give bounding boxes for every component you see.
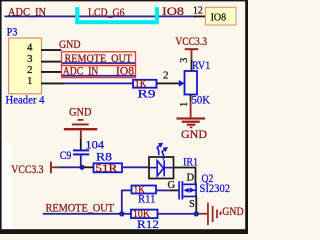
pin wire C9 top xyxy=(80,138,82,149)
svg-text:S: S xyxy=(189,199,195,210)
wire in box1 xyxy=(62,62,135,64)
svg-text:50K: 50K xyxy=(192,92,211,106)
svg-text:3: 3 xyxy=(179,58,190,63)
wire R8 to IR1 xyxy=(122,166,149,168)
svg-text:GND: GND xyxy=(69,104,92,118)
potentiometer RV1 body xyxy=(185,71,198,95)
IR LED IR1 body xyxy=(149,157,174,179)
ground symbol (below RV1) xyxy=(177,117,206,128)
wiper arrow RV1 xyxy=(179,80,185,87)
wire REMOTE_OUT rail xyxy=(43,213,132,215)
pin 1 wire (black stub) xyxy=(41,83,65,85)
wire VCC to junction xyxy=(59,166,82,168)
svg-text:12: 12 xyxy=(193,5,203,17)
wire R11 row xyxy=(121,190,132,192)
svg-text:VCC3.3: VCC3.3 xyxy=(11,164,43,176)
resistor R9 body xyxy=(133,80,157,88)
power port VCC3.3 (top right) xyxy=(175,36,207,60)
transistor Q2 symbol xyxy=(178,181,197,199)
svg-text:2: 2 xyxy=(27,64,33,76)
svg-text:REMOTE_OUT: REMOTE_OUT xyxy=(65,51,133,65)
svg-text:Header 4: Header 4 xyxy=(6,93,45,107)
wire RV1 to GND xyxy=(190,102,192,118)
svg-text:C9: C9 xyxy=(60,148,72,162)
svg-text:3: 3 xyxy=(27,53,33,65)
svg-text:1: 1 xyxy=(179,102,190,107)
svg-text:51R: 51R xyxy=(95,164,117,175)
svg-text:IO8: IO8 xyxy=(162,4,184,18)
wire top rail xyxy=(4,16,196,18)
pin 3 wire (RV1 top) xyxy=(191,60,193,72)
resistor R11 body xyxy=(132,186,157,194)
pin wire to R8 xyxy=(84,166,94,168)
gate pin wire xyxy=(170,190,178,192)
wire in box2 xyxy=(62,75,135,77)
pin 4 wire xyxy=(41,49,61,51)
svg-text:GND: GND xyxy=(59,37,81,51)
ground symbol (bottom right, rotated) xyxy=(207,203,221,226)
svg-text:P3: P3 xyxy=(7,25,17,39)
connector P3 body xyxy=(9,38,42,94)
svg-text:LCD_G6: LCD_G6 xyxy=(88,5,125,19)
diode symbol IR1 xyxy=(150,160,173,176)
drain pin wire (from IR1) covered above xyxy=(195,196,197,213)
svg-text:R12: R12 xyxy=(137,217,159,231)
svg-text:IR1: IR1 xyxy=(183,155,198,169)
junction node (C9/R8) xyxy=(79,165,84,170)
highlight box REMOTE_OUT xyxy=(62,52,136,66)
junction node (source) xyxy=(194,211,199,216)
wire GND to C9 xyxy=(80,130,82,138)
pin 1 wire (RV1 bottom) xyxy=(190,95,192,102)
svg-text:R8: R8 xyxy=(96,149,112,163)
highlight box ADC_IN/IO8 xyxy=(62,66,136,78)
cyan highlight bracket xyxy=(75,7,159,24)
pin 3 wire xyxy=(41,61,61,63)
svg-text:D: D xyxy=(187,173,195,184)
wire C9 bottom xyxy=(80,155,82,167)
svg-text:4: 4 xyxy=(27,42,33,54)
svg-text:1: 1 xyxy=(27,75,33,87)
wire R9 to RV1 xyxy=(157,83,180,85)
svg-text:REMOTE_OUT: REMOTE_OUT xyxy=(46,200,115,214)
wire pin1 to R9 xyxy=(65,83,134,85)
svg-text:2: 2 xyxy=(163,70,169,82)
svg-text:IO8: IO8 xyxy=(116,64,134,78)
svg-text:SI2302: SI2302 xyxy=(200,181,231,195)
svg-text:R9: R9 xyxy=(138,87,156,101)
wire R11 to gate xyxy=(156,190,170,192)
svg-text:R11: R11 xyxy=(138,192,156,206)
pin wire to IC xyxy=(194,16,207,18)
svg-text:GND: GND xyxy=(222,206,243,218)
frame border xyxy=(0,0,248,234)
svg-text:G: G xyxy=(168,180,176,191)
svg-text:VCC3.3: VCC3.3 xyxy=(175,36,207,48)
pin 2 wire xyxy=(41,71,61,73)
svg-text:IO8: IO8 xyxy=(211,11,227,23)
IC body (partial, right) xyxy=(205,7,236,25)
wire R12 to source xyxy=(158,213,197,215)
svg-text:RV1: RV1 xyxy=(192,58,210,72)
junction node (R11/R12) xyxy=(119,211,124,216)
emission arrows IR1 xyxy=(157,143,168,160)
svg-text:ADC_IN: ADC_IN xyxy=(63,64,99,78)
ground symbol (above C9, inverted) xyxy=(64,119,98,130)
wire to GND (bottom right) xyxy=(199,213,207,215)
wire IR1 to Q2 drain xyxy=(174,168,196,185)
power port VCC3.3 (left) xyxy=(11,162,58,177)
sheet background xyxy=(0,0,248,234)
capacitor C9 xyxy=(73,149,89,155)
resistor R12 body xyxy=(131,210,158,219)
wire R11 left vertical xyxy=(121,190,123,213)
svg-text:GND: GND xyxy=(181,127,207,141)
resistor R8 body xyxy=(94,163,123,172)
